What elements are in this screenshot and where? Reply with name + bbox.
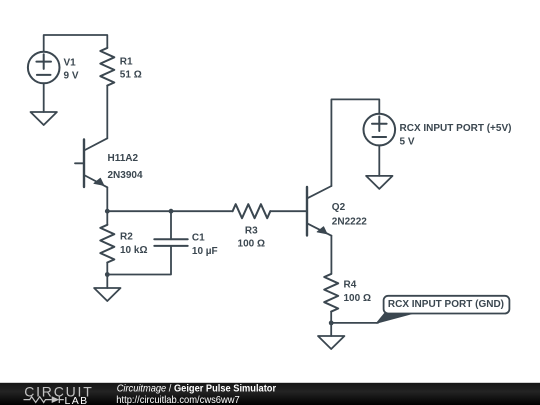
node Q1 emitter / R2 / C1 rail xyxy=(105,209,110,214)
node C1 top xyxy=(169,209,174,214)
wire C1 top lead xyxy=(170,211,172,239)
svg-text:100 Ω: 100 Ω xyxy=(344,293,371,304)
svg-text:RCX INPUT PORT (GND): RCX INPUT PORT (GND) xyxy=(388,299,504,310)
svg-text:2N3904: 2N3904 xyxy=(108,170,143,181)
svg-text:R4: R4 xyxy=(344,279,357,290)
wire R1 bottom to Q1 collector xyxy=(106,86,108,139)
svg-text:10 µF: 10 µF xyxy=(192,246,218,257)
wire R2 bottom to node xyxy=(106,263,108,275)
svg-text:10 kΩ: 10 kΩ xyxy=(120,245,147,256)
wire node to ground xyxy=(330,323,332,336)
svg-text:C1: C1 xyxy=(192,232,205,243)
svg-text:Q2: Q2 xyxy=(332,202,346,213)
wire Q1 emitter down to node xyxy=(106,187,108,211)
wire top rail V1 to R1 xyxy=(44,35,108,52)
svg-text:100 Ω: 100 Ω xyxy=(238,238,265,249)
svg-text:R3: R3 xyxy=(245,225,258,236)
footer bar xyxy=(0,383,540,405)
svg-text:9 V: 9 V xyxy=(64,71,79,82)
svg-text:2N2222: 2N2222 xyxy=(332,217,367,228)
svg-text:R1: R1 xyxy=(120,57,133,68)
voltage source V2 RCX INPUT PORT (+5V) xyxy=(364,114,396,146)
svg-text:5 V: 5 V xyxy=(400,136,415,147)
resistor R3 xyxy=(233,204,271,218)
svg-text:Circuitmage / Geiger Pulse Sim: Circuitmage / Geiger Pulse Simulator xyxy=(117,383,277,394)
ground below R2 xyxy=(94,288,120,301)
resistor R2 xyxy=(100,225,114,263)
resistor R1 xyxy=(100,48,114,86)
wire node to R2 xyxy=(106,211,108,225)
ground below V1 xyxy=(31,112,57,125)
svg-text:R2: R2 xyxy=(120,232,133,243)
transistor Q2 2N2222 xyxy=(307,186,331,236)
wire V1 bottom lead xyxy=(43,83,45,112)
ground below V2 xyxy=(366,176,392,189)
wire Q2 emitter down to R4 xyxy=(330,236,332,274)
transistor Q1 H11A2 2N3904 xyxy=(75,138,107,187)
node R4 bottom / flag / ground xyxy=(329,321,334,326)
ground below R4 xyxy=(318,336,344,349)
svg-text:RCX INPUT PORT (+5V): RCX INPUT PORT (+5V) xyxy=(400,123,512,134)
wire R2 node to ground xyxy=(106,275,108,289)
wire Q2 collector up and right to V2 xyxy=(331,99,379,186)
svg-text:H11A2: H11A2 xyxy=(108,153,139,164)
node flag RCX INPUT PORT (GND) xyxy=(377,296,510,323)
resistor R4 xyxy=(324,274,338,312)
wire node to flag xyxy=(331,322,378,324)
logo schematic squiggle xyxy=(24,396,64,403)
wire C1 bottom lead to bottom rail xyxy=(107,246,171,275)
svg-text:V1: V1 xyxy=(64,58,77,69)
voltage source V1 xyxy=(28,52,60,84)
svg-text:LAB: LAB xyxy=(65,395,89,405)
wire V2 bottom lead xyxy=(378,145,380,176)
node R2 bottom / C1 bottom xyxy=(105,272,110,277)
svg-text:http://circuitlab.com/cws6ww7: http://circuitlab.com/cws6ww7 xyxy=(116,395,239,405)
svg-text:51 Ω: 51 Ω xyxy=(120,70,142,81)
wire R3 to Q2 base xyxy=(270,210,307,212)
wire mid rail to R3 xyxy=(171,210,233,212)
wire mid rail node to C1 node xyxy=(107,210,171,212)
wire R4 bottom to node xyxy=(330,312,332,323)
capacitor C1 xyxy=(154,239,187,246)
